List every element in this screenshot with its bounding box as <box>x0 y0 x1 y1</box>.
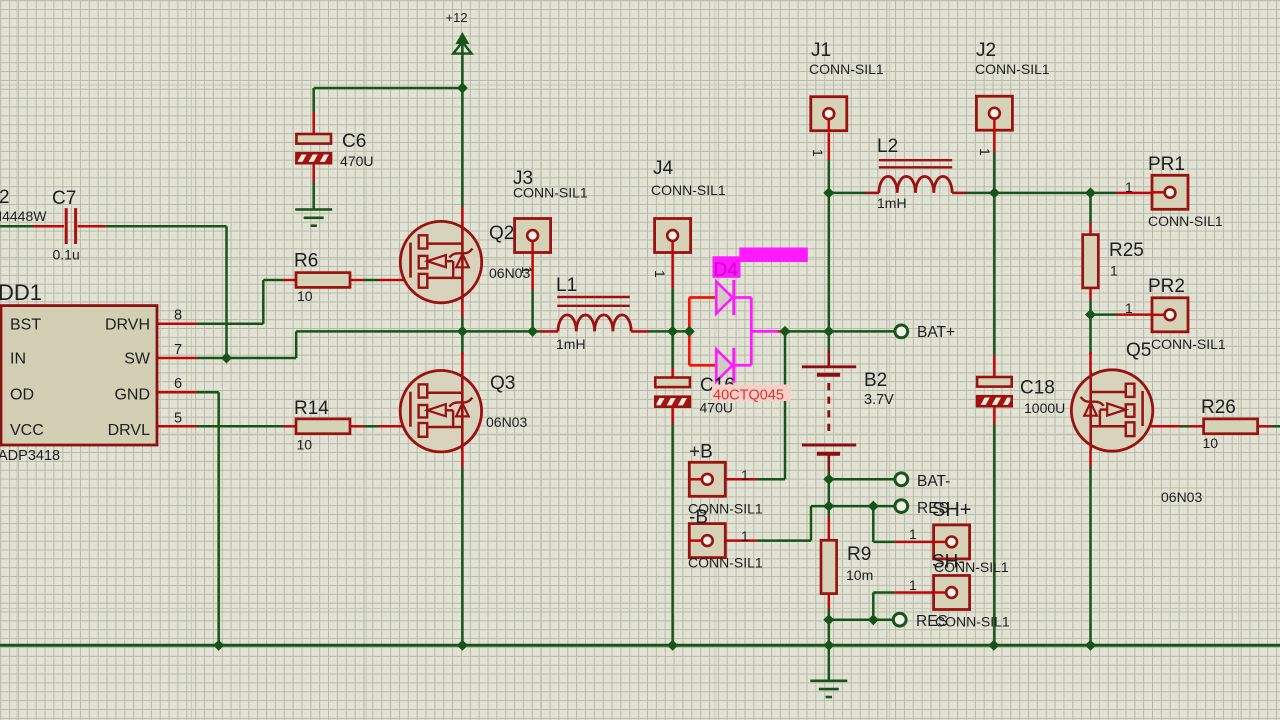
svg-text:7: 7 <box>174 342 182 358</box>
svg-text:OD: OD <box>10 387 34 404</box>
wire: PR2 node to PR2 <box>1091 313 1117 316</box>
svg-text:1: 1 <box>1110 263 1118 279</box>
wire: J2 lead <box>993 131 996 152</box>
wire: R26 right lead to edge <box>1258 425 1271 428</box>
connector SH+ <box>934 525 970 559</box>
pin: battery bottom lead <box>827 454 830 471</box>
wire: R25 bottom lead to PR2 node <box>1089 288 1092 300</box>
wire: R9 bottom to ground rail <box>828 620 831 646</box>
wire: J1 lead down to L2 rail <box>828 133 831 161</box>
wire: D4 output to battery node <box>778 330 786 333</box>
svg-text:R9: R9 <box>847 544 871 565</box>
pin: L2 right lead <box>952 192 966 195</box>
resistor R6 <box>296 273 350 288</box>
connector SH- <box>934 576 970 610</box>
wire: battery minus row to BAT- terminal <box>829 478 896 481</box>
svg-text:N4448W: N4448W <box>0 208 47 224</box>
capacitor C16 (electrolytic) <box>655 378 690 388</box>
svg-text:6: 6 <box>174 376 182 392</box>
wire: Q5 gate to R26 <box>1143 425 1181 428</box>
wire: C18 bottom lead to ground rail <box>993 407 996 424</box>
pin: SH+ connector pin1 <box>895 541 934 544</box>
wire: D4 node riser to +B connector <box>784 331 787 479</box>
wire: Q2 source to SW rail <box>461 302 464 317</box>
svg-text:10: 10 <box>1203 435 1219 451</box>
svg-text:J2: J2 <box>976 40 996 61</box>
wire: C6 top lead <box>312 88 315 112</box>
junction BAT- / battery <box>823 474 834 485</box>
wire: DD1 pin7 SW net <box>157 357 197 360</box>
transistor Q2 (MOSFET) <box>400 221 481 302</box>
svg-text:BAT-: BAT- <box>917 473 950 490</box>
svg-text:Q2: Q2 <box>489 223 514 244</box>
svg-text:L1: L1 <box>556 275 577 296</box>
junction R25 / PR2 / Q5 <box>1085 309 1096 320</box>
wire: ground rail stub below battery <box>828 645 831 681</box>
wire: left net into C7 (from off-screen D2) <box>0 225 33 228</box>
svg-text:1: 1 <box>1125 179 1133 195</box>
wire: battery minus to RES row <box>828 479 831 506</box>
junction SW / C7 <box>221 353 232 364</box>
resistor R14 <box>296 419 350 434</box>
svg-text:5: 5 <box>174 410 182 426</box>
junction ground rail / DD1 GND <box>213 640 224 651</box>
svg-text:DRVL: DRVL <box>108 422 150 439</box>
connector -B <box>689 524 725 558</box>
wire: Q5 source to ground rail <box>1089 450 1092 466</box>
ground below C6 <box>295 208 332 211</box>
wire: C7 right pin segment <box>78 225 106 228</box>
capacitor C6 (electrolytic) <box>296 134 331 144</box>
capacitor C7 plates <box>65 208 68 244</box>
junction ground rail / C18 <box>988 640 999 651</box>
svg-text:1: 1 <box>652 270 668 278</box>
pin: battery top lead <box>827 350 830 367</box>
wire: J3 lead down to SW rail <box>531 253 534 290</box>
pin: -B connector pin1 <box>725 539 756 542</box>
pin: PR1 connector pin1 <box>1117 192 1153 195</box>
junction L2 rail / R25 <box>1085 187 1096 198</box>
junction L2 rail / J1 <box>823 187 834 198</box>
svg-text:1: 1 <box>909 577 917 593</box>
junction RES row / R9 <box>823 501 834 512</box>
svg-text:C18: C18 <box>1020 378 1055 399</box>
pin: SH- connector pin1 <box>895 591 934 594</box>
pin: L2 left lead <box>865 192 879 195</box>
value 40CTQ045 highlighted <box>712 385 791 402</box>
svg-text:R6: R6 <box>294 251 318 272</box>
wire: L1 right lead to J4 node <box>631 330 649 333</box>
svg-text:2: 2 <box>0 187 10 208</box>
resistor R25 <box>1083 235 1099 288</box>
svg-text:IN: IN <box>10 351 26 368</box>
svg-text:+B: +B <box>689 442 713 463</box>
terminal BAT+ <box>895 325 908 338</box>
svg-text:DRVH: DRVH <box>105 316 150 333</box>
junction SW / D4 anodes <box>684 326 695 337</box>
svg-text:Q5: Q5 <box>1126 340 1151 361</box>
svg-text:06N03: 06N03 <box>1161 489 1202 505</box>
svg-text:1000U: 1000U <box>1024 400 1065 416</box>
wire: L2 rail down to battery <box>828 193 831 350</box>
capacitor C18 (electrolytic) <box>977 377 1012 387</box>
svg-text:CONN-SIL1: CONN-SIL1 <box>1151 336 1226 352</box>
svg-text:1: 1 <box>741 528 749 544</box>
IC DD1 ADP3418 body <box>1 306 157 445</box>
svg-text:1: 1 <box>909 526 917 542</box>
svg-text:CONN-SIL1: CONN-SIL1 <box>651 182 726 198</box>
transistor Q5 (MOSFET, mirrored) <box>1071 370 1152 451</box>
svg-text:8: 8 <box>174 308 182 324</box>
wire: L2 to J2 node to R25 node to PR1 <box>966 192 1117 195</box>
junction BAT+ / J1 column <box>823 326 834 337</box>
wire: DD1 pin6 GND down to ground rail <box>157 391 197 394</box>
svg-text:40CTQ045: 40CTQ045 <box>713 388 784 404</box>
svg-text:0.1u: 0.1u <box>53 247 80 263</box>
svg-text:VCC: VCC <box>10 422 44 439</box>
connector PR2 <box>1152 298 1188 332</box>
wire: RES row <box>811 505 896 508</box>
wire: Q3 source to ground rail <box>461 451 464 467</box>
junction lower RES / SH- branch <box>868 614 879 625</box>
wire: lower RES row <box>829 618 894 621</box>
svg-text:10m: 10m <box>846 567 873 583</box>
pin: +B connector pin1 <box>725 478 756 481</box>
svg-text:PR2: PR2 <box>1148 276 1185 297</box>
wire: J4 lead down through node to C16 <box>671 253 674 289</box>
junction L2 rail / J2-C18 <box>989 187 1000 198</box>
junction R9 bottom <box>823 614 834 625</box>
junction ground rail / battery <box>823 640 834 651</box>
connector +B <box>689 462 725 496</box>
terminal RES lower <box>893 613 906 626</box>
junction SW / J4-C16 <box>667 326 678 337</box>
pin: Q2 drain stub <box>461 207 464 222</box>
wire: battery node to BAT+ terminal <box>829 330 896 333</box>
wire: C6 bottom lead to ground <box>312 163 315 182</box>
connector J3 <box>515 219 551 253</box>
junction RES row / SH+ branch <box>868 501 879 512</box>
inductor L2 <box>879 159 952 161</box>
wire: R25 top lead <box>1089 193 1092 223</box>
resistor R9 <box>821 540 837 593</box>
svg-text:R14: R14 <box>294 398 329 419</box>
svg-text:C7: C7 <box>52 188 76 209</box>
svg-text:Q3: Q3 <box>490 373 515 394</box>
diode pair D4 40CTQ045 (selected, magenta) <box>689 248 808 383</box>
svg-text:L2: L2 <box>877 136 898 157</box>
svg-text:1: 1 <box>741 467 749 483</box>
wire: -B connector riser <box>757 539 811 542</box>
wire: SH- branch <box>872 593 875 620</box>
connector J2 <box>976 96 1012 130</box>
wire: DD1 pin5 DRVL to R14 <box>157 425 197 428</box>
svg-text:B2: B2 <box>864 370 887 391</box>
wire: +12 rail to C6 horizontal <box>314 87 463 90</box>
svg-text:SH+: SH+ <box>932 499 971 521</box>
wire: ground rail (bottom) <box>0 644 1280 647</box>
svg-text:PR1: PR1 <box>1148 154 1185 175</box>
wire: R9 bottom lead <box>828 594 831 609</box>
svg-text:1mH: 1mH <box>556 336 586 352</box>
wire: C7 left pin segment <box>33 225 64 228</box>
svg-text:SW: SW <box>124 351 151 368</box>
svg-text:CONN-SIL1: CONN-SIL1 <box>935 613 1010 629</box>
wire: R14 to Q3 gate <box>350 425 364 428</box>
power symbol +12 <box>455 32 469 44</box>
svg-text:R26: R26 <box>1201 397 1236 418</box>
svg-text:CONN-SIL1: CONN-SIL1 <box>809 61 884 77</box>
svg-text:10: 10 <box>297 288 313 304</box>
svg-text:BAT+: BAT+ <box>917 324 955 341</box>
svg-text:C6: C6 <box>342 131 366 152</box>
resistor R26 <box>1204 419 1258 434</box>
ground below battery / R9 <box>810 679 847 682</box>
battery B2 <box>802 365 856 368</box>
svg-text:SH-: SH- <box>932 552 965 573</box>
terminal BAT- <box>895 473 908 486</box>
wire: C16 bottom lead to ground rail <box>671 407 674 424</box>
svg-text:+12: +12 <box>446 10 468 25</box>
svg-text:1: 1 <box>977 148 993 156</box>
wire: PR2 node down to Q5 drain <box>1089 315 1092 355</box>
svg-text:ADP3418: ADP3418 <box>0 448 60 464</box>
svg-text:CONN-SIL1: CONN-SIL1 <box>513 185 588 201</box>
pin: PR2 connector pin1 <box>1117 313 1153 316</box>
svg-text:CONN-SIL1: CONN-SIL1 <box>1148 213 1223 229</box>
svg-text:CONN-SIL1: CONN-SIL1 <box>688 555 763 571</box>
junction SW / J3 <box>527 326 538 337</box>
junction ground rail / Q3 source <box>457 640 468 651</box>
connector PR1 <box>1152 175 1188 209</box>
svg-text:BST: BST <box>10 316 41 333</box>
svg-text:1: 1 <box>1125 300 1133 316</box>
terminal RES upper <box>895 500 908 513</box>
junction SW / Q2-Q3 <box>457 326 468 337</box>
junction ground rail / C16 <box>667 640 678 651</box>
junction D4 cathode / +B riser <box>780 326 791 337</box>
inductor L1 <box>557 296 629 298</box>
svg-text:D4: D4 <box>714 260 739 281</box>
wire: Q3 drain from SW rail <box>461 331 464 355</box>
wire: C7 to SW-node vertical <box>106 225 227 228</box>
wire: SH+ branch <box>872 506 875 542</box>
svg-text:J4: J4 <box>653 158 674 179</box>
wire: SW rail to L1 <box>296 330 540 333</box>
connector J1 <box>811 97 847 131</box>
svg-text:R25: R25 <box>1109 240 1144 261</box>
svg-text:06N03: 06N03 <box>486 414 527 430</box>
svg-text:3.7V: 3.7V <box>864 392 894 408</box>
svg-text:-B: -B <box>689 507 708 528</box>
svg-text:10: 10 <box>297 437 313 453</box>
svg-text:1: 1 <box>810 149 826 157</box>
svg-text:470U: 470U <box>340 153 373 169</box>
svg-text:J1: J1 <box>811 40 831 61</box>
svg-text:GND: GND <box>114 387 150 404</box>
svg-text:1mH: 1mH <box>877 195 907 211</box>
wire: R9 top lead <box>828 506 831 517</box>
connector J4 <box>655 219 691 253</box>
wire: DD1 pin8 DRVH to R6 <box>157 323 197 326</box>
svg-text:1: 1 <box>519 266 535 274</box>
wire: L2 rail from J1 node <box>829 192 865 195</box>
junction ground rail / Q5 source <box>1085 640 1096 651</box>
wire: J2 node down to C18 <box>993 193 996 355</box>
wire: R6 to Q2 gate <box>350 279 364 282</box>
svg-text:CONN-SIL1: CONN-SIL1 <box>975 61 1050 77</box>
transistor Q3 (MOSFET) <box>400 371 481 452</box>
svg-text:DD1: DD1 <box>0 280 42 305</box>
wire: L1 left lead <box>540 330 558 333</box>
junction +12 / C6 <box>457 83 468 94</box>
wire: +12 vertical down to Q2 drain <box>461 44 464 207</box>
